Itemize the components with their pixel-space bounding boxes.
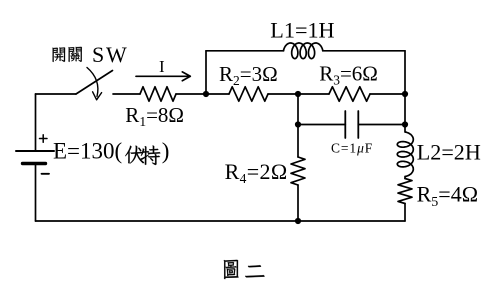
svg-text:C=1μF: C=1μF [331,140,373,155]
svg-text:SW: SW [92,42,129,67]
svg-text:R3=6Ω: R3=6Ω [319,61,378,87]
svg-text:E=130(: E=130( [53,139,122,164]
svg-text:R2=3Ω: R2=3Ω [219,62,278,88]
svg-text:I: I [159,57,165,76]
svg-text:R5=4Ω: R5=4Ω [417,181,478,210]
svg-text:L2=2H: L2=2H [417,139,481,164]
svg-text:L1=1H: L1=1H [270,17,334,42]
svg-text:): ) [162,139,170,164]
svg-text:R4=2Ω: R4=2Ω [225,159,288,186]
svg-text:R1=8Ω: R1=8Ω [125,103,184,129]
